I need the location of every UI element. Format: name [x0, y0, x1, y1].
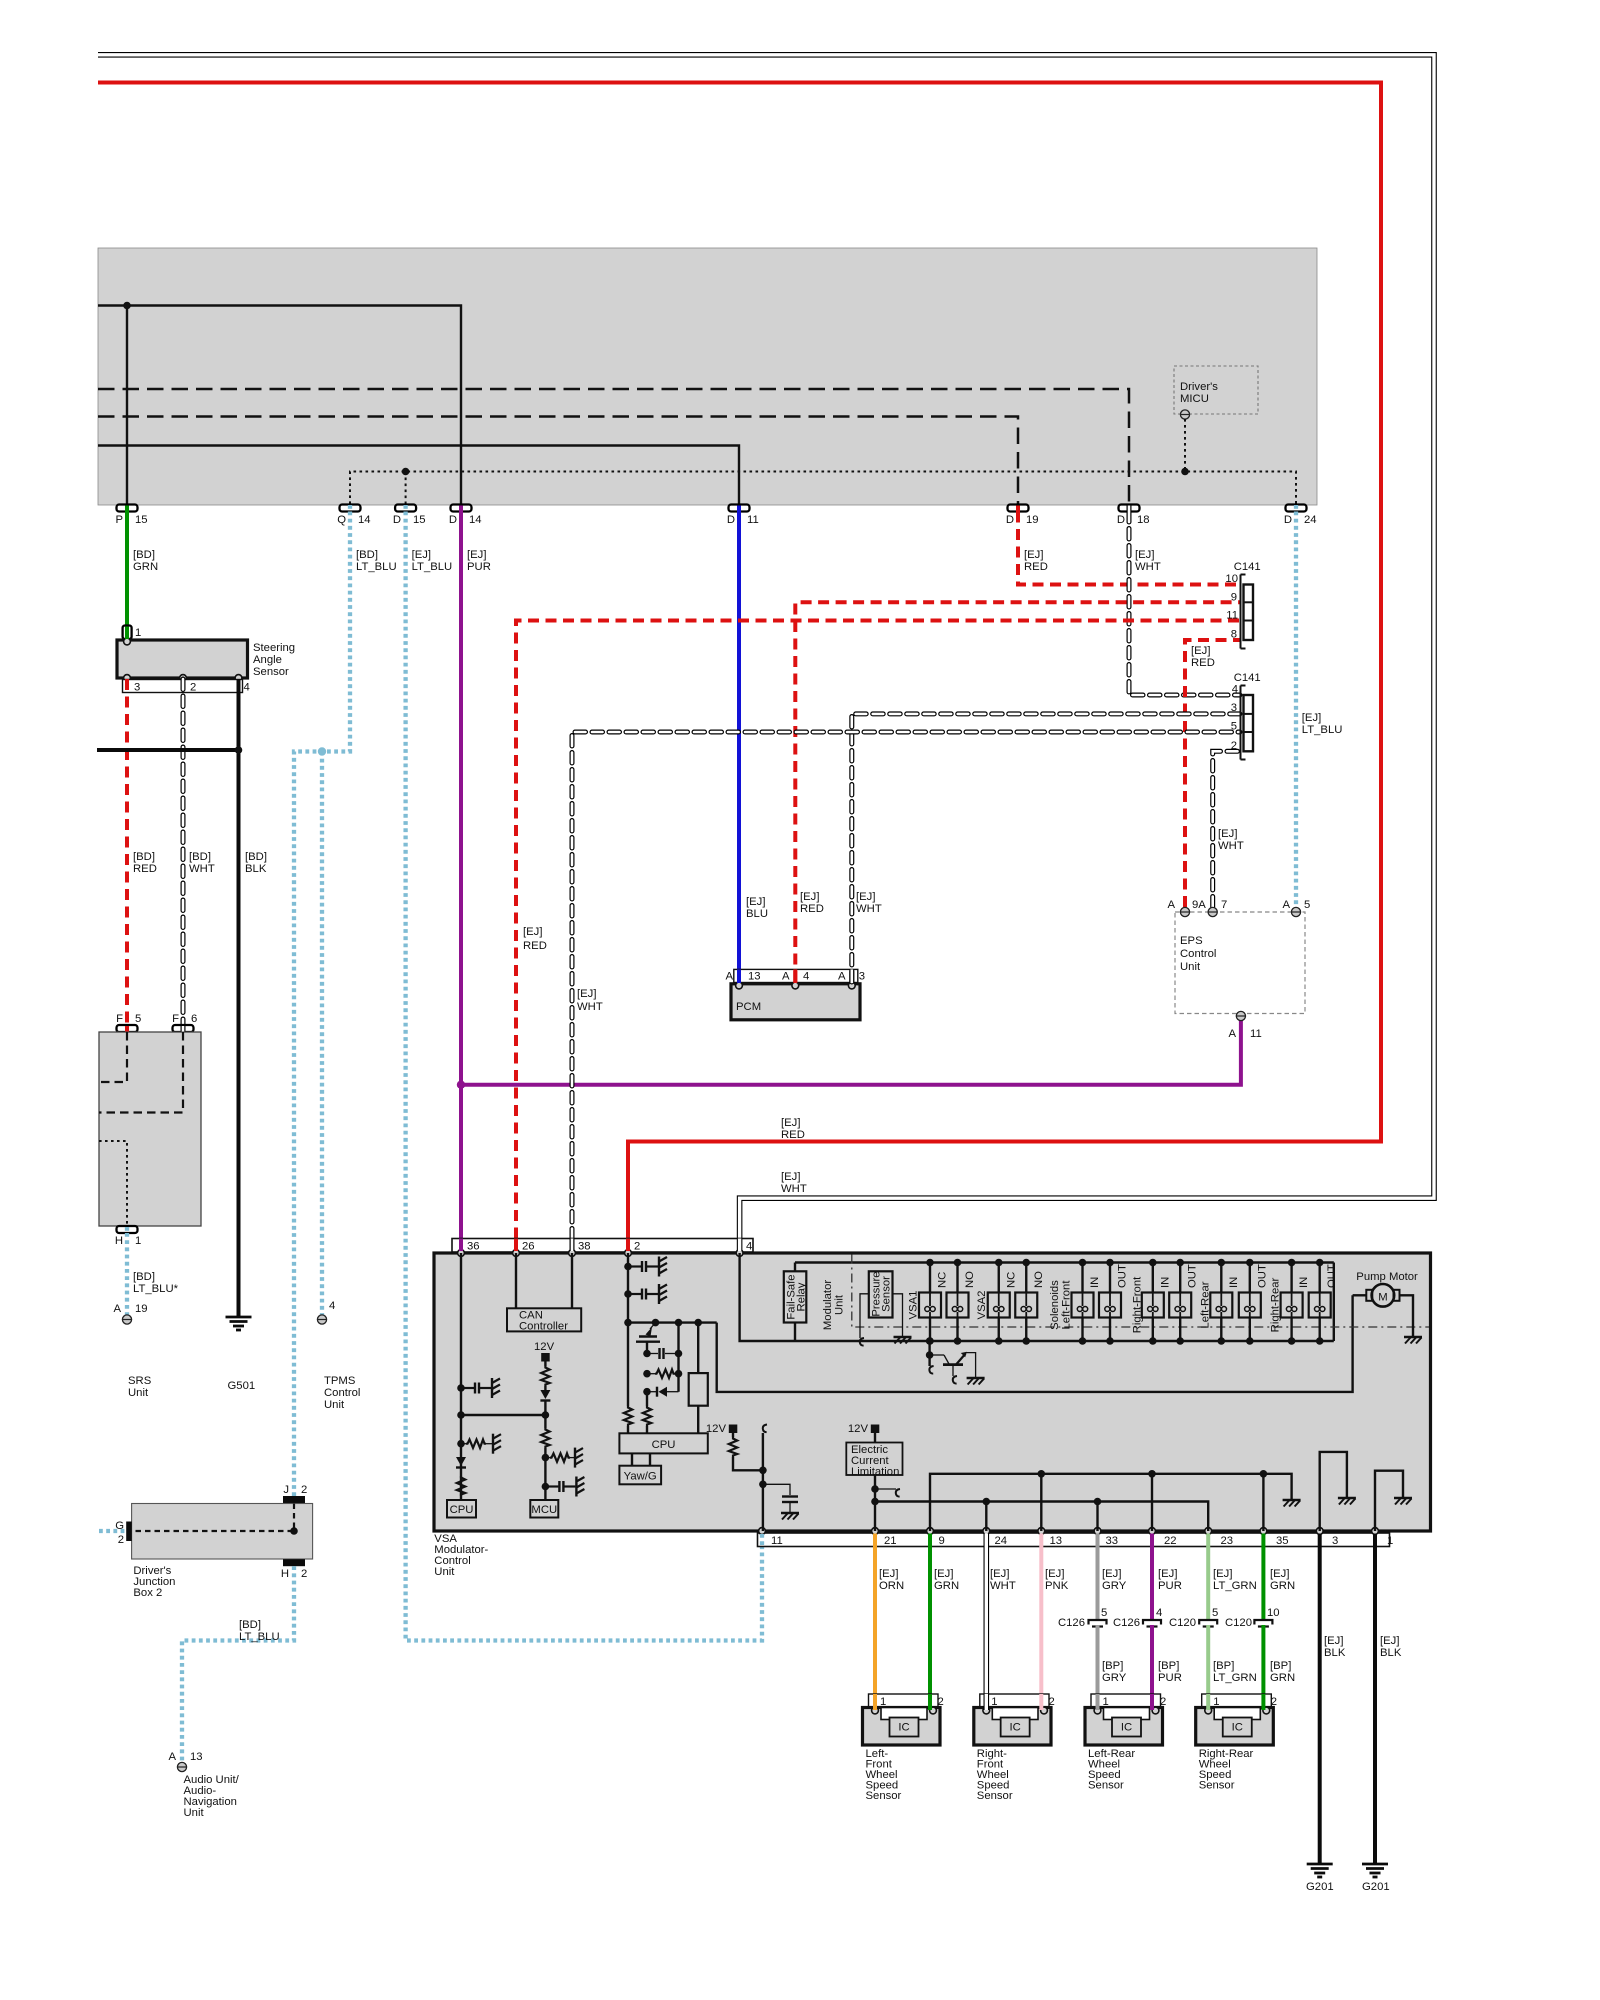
- svg-text:F: F: [116, 1013, 123, 1025]
- terminal A 5 (EPS): [1282, 899, 1310, 917]
- svg-text:Sensor: Sensor: [881, 1276, 893, 1312]
- svg-text:H: H: [281, 1568, 289, 1580]
- svg-text:PUR: PUR: [1158, 1580, 1182, 1592]
- svg-text:A: A: [1167, 899, 1175, 911]
- VSA top pin circles: [458, 1250, 465, 1257]
- VSA bottom pin strip (11 21 9 24 13 33 22 23 35 3 1): [758, 1533, 1394, 1547]
- connector C141 (pins 4 3 5 2): [1231, 672, 1261, 760]
- connector D 18: [1117, 505, 1150, 527]
- svg-text:A: A: [782, 971, 790, 983]
- VSA bottom pin circles: [759, 1528, 766, 1535]
- connector H 1: [115, 1226, 141, 1247]
- pressure sensor: [860, 1271, 912, 1345]
- wire [BD] LT_BLU (Q14 to junction box / TPMS): [294, 512, 350, 1497]
- wire ORN into LF sensor: [873, 1694, 877, 1710]
- resistor mid chain: [541, 1415, 549, 1500]
- svg-text:12V: 12V: [534, 1341, 555, 1353]
- modulator unit boundary (dash-dot): [822, 1255, 1429, 1331]
- wire [EJ] GRN (pin 9 to LF sensor 2): [928, 1547, 932, 1710]
- svg-text:10: 10: [1267, 1607, 1280, 1619]
- svg-text:15: 15: [413, 514, 426, 526]
- svg-text:G501: G501: [228, 1380, 256, 1392]
- svg-text:[EJ]: [EJ]: [412, 549, 431, 561]
- driver's junction box 2: [132, 1504, 313, 1600]
- wire WHT through strip pin4: [737, 1239, 743, 1252]
- svg-text:GRN: GRN: [1270, 1672, 1295, 1684]
- resistor into CPU (fet col): [643, 1406, 651, 1433]
- pin 38 internal line: [571, 1253, 573, 1308]
- steering angle sensor: [117, 640, 295, 678]
- svg-text:LT_BLU*: LT_BLU*: [133, 1283, 179, 1295]
- svg-text:[EJ]: [EJ]: [781, 1117, 800, 1129]
- pin 2 internal line: [627, 1253, 629, 1406]
- svg-text:NO: NO: [1033, 1271, 1045, 1288]
- svg-text:[BD]: [BD]: [133, 1271, 155, 1283]
- wire MICU dotted drop: [1184, 419, 1186, 472]
- resistor box component: [689, 1323, 708, 1434]
- svg-text:WHT: WHT: [990, 1580, 1016, 1592]
- wire [BP] GRN (C120 to RR sensor 2): [1261, 1625, 1265, 1709]
- wire black stub (page edge to BLK): [97, 748, 239, 752]
- wire WHT through PCM strip: [849, 969, 854, 983]
- svg-text:Angle: Angle: [253, 654, 282, 666]
- fail-safe relay: [784, 1263, 808, 1342]
- svg-text:15: 15: [135, 514, 148, 526]
- svg-text:38: 38: [578, 1241, 591, 1253]
- svg-text:D: D: [1284, 514, 1292, 526]
- svg-text:Control: Control: [324, 1387, 360, 1399]
- svg-text:IC: IC: [1009, 1722, 1020, 1734]
- wire BLU through PCM strip: [737, 969, 741, 983]
- wire [EJ] RED (EPS A9A to C141 pin 8): [1185, 640, 1240, 907]
- wire LT_BLU through connector H1: [125, 1227, 129, 1233]
- wire RED through connector D19: [1016, 506, 1020, 512]
- power rail of FET: [628, 1321, 717, 1323]
- svg-text:[EJ]: [EJ]: [1324, 1635, 1343, 1647]
- svg-text:10: 10: [1225, 573, 1238, 585]
- svg-text:WHT: WHT: [856, 903, 882, 915]
- resistor on pin36 line: [457, 1476, 465, 1496]
- link pin36 to 12V chain: [461, 1414, 545, 1416]
- capacitor+ground pin2 upper: [628, 1257, 667, 1277]
- solenoid NO x1026: [1015, 1259, 1045, 1345]
- ladder vertical: [677, 1323, 679, 1392]
- svg-text:[EJ]: [EJ]: [577, 988, 596, 1000]
- wire [EJ] RED (VSA pin 26 to C141 pin 11): [516, 621, 1240, 1257]
- svg-text:11: 11: [1250, 1028, 1262, 1040]
- diode on pin36 line: [456, 1457, 466, 1468]
- connector C120 pin 10: [1225, 1607, 1280, 1629]
- solenoid IN x1291: [1281, 1259, 1311, 1345]
- svg-text:Unit: Unit: [434, 1566, 455, 1578]
- svg-text:M: M: [1378, 1292, 1387, 1304]
- connector C141 (pins 10 9 11 8): [1225, 561, 1260, 649]
- svg-text:Sensor: Sensor: [1088, 1780, 1124, 1792]
- svg-text:2: 2: [190, 682, 196, 694]
- pin 1 riser + ground: [1375, 1471, 1412, 1531]
- Driver's MICU terminal: [1180, 410, 1189, 419]
- svg-text:IC: IC: [1121, 1722, 1132, 1734]
- svg-text:IN: IN: [1089, 1277, 1101, 1288]
- svg-text:TPMS: TPMS: [324, 1375, 356, 1387]
- wire BLK through strip pin1: [1373, 1534, 1377, 1548]
- svg-text:Unit: Unit: [324, 1399, 345, 1411]
- svg-text:4: 4: [244, 682, 250, 694]
- svg-text:[BD]: [BD]: [133, 549, 155, 561]
- wire bus solid lower (D11): [98, 446, 739, 505]
- svg-text:12V: 12V: [848, 1423, 869, 1435]
- svg-text:C126: C126: [1058, 1617, 1085, 1629]
- svg-text:GRN: GRN: [133, 561, 158, 573]
- wire PUR through connector D14: [459, 506, 463, 512]
- svg-text:19: 19: [135, 1303, 148, 1315]
- svg-text:[EJ]: [EJ]: [1158, 1568, 1177, 1580]
- svg-text:PCM: PCM: [736, 1001, 761, 1013]
- wire GRN through strip pin35: [1261, 1534, 1265, 1548]
- svg-text:LT_BLU: LT_BLU: [412, 561, 453, 573]
- pin 21 internal line: [874, 1475, 876, 1531]
- svg-text:Modulator: Modulator: [822, 1280, 834, 1330]
- wire [EJ] WHT (EPS 7 to C141 pin 2): [1213, 751, 1240, 907]
- svg-text:4: 4: [1232, 684, 1238, 696]
- svg-text:[EJ]: [EJ]: [523, 926, 542, 938]
- svg-text:PUR: PUR: [1158, 1672, 1182, 1684]
- FET output run to pump motor: [717, 1295, 1353, 1392]
- CPU box (left): [447, 1500, 476, 1518]
- svg-text:9: 9: [1231, 592, 1237, 604]
- svg-text:5: 5: [1231, 721, 1237, 733]
- svg-text:2: 2: [634, 1241, 640, 1253]
- svg-text:Relay: Relay: [796, 1282, 808, 1311]
- SRS internal dotted H1: [99, 1141, 127, 1226]
- svg-text:[BP]: [BP]: [1158, 1660, 1179, 1672]
- pin 3 riser + ground: [1320, 1452, 1356, 1531]
- connector C126 pin 4: [1113, 1607, 1162, 1629]
- svg-text:4: 4: [746, 1241, 752, 1253]
- top junction module (gray bus box): [98, 248, 1317, 505]
- svg-text:C120: C120: [1225, 1617, 1252, 1629]
- svg-text:Control: Control: [1180, 948, 1216, 960]
- wire [BD] LT_BLU* (H1 to SRS A19): [125, 1233, 129, 1315]
- capacitor+ground right of chain: [545, 1477, 584, 1497]
- wire bus dashed upper (D18): [98, 389, 1129, 504]
- svg-text:24: 24: [995, 1535, 1008, 1547]
- svg-text:7: 7: [1221, 899, 1227, 911]
- wire [BD] RED (pin 3 to F5): [125, 679, 129, 1028]
- svg-text:13: 13: [748, 971, 761, 983]
- solenoid IN x1221: [1210, 1259, 1240, 1345]
- wire ORN through strip pin21: [873, 1534, 877, 1548]
- svg-text:RED: RED: [781, 1129, 805, 1141]
- svg-text:NO: NO: [964, 1271, 976, 1288]
- svg-text:BLK: BLK: [1324, 1647, 1346, 1659]
- resistor (watchdog): [729, 1437, 763, 1470]
- svg-text:Steering: Steering: [253, 642, 295, 654]
- svg-text:8: 8: [1231, 629, 1237, 641]
- svg-text:LT_BLU: LT_BLU: [239, 1631, 280, 1643]
- wire GRN through connector P15: [125, 506, 129, 512]
- CPU box (power section): [619, 1433, 707, 1453]
- svg-text:[EJ]: [EJ]: [781, 1171, 800, 1183]
- wire WHT into RF sensor: [983, 1694, 989, 1710]
- svg-text:22: 22: [1164, 1535, 1177, 1547]
- svg-text:RED: RED: [523, 940, 547, 952]
- terminal A 11 (EPS): [1228, 1011, 1261, 1040]
- svg-text:RED: RED: [1191, 657, 1215, 669]
- svg-text:LT_GRN: LT_GRN: [1213, 1580, 1257, 1592]
- wire lt_blu stub (page edge to G2): [99, 1529, 126, 1533]
- connector D 15: [393, 505, 426, 527]
- svg-text:3: 3: [1332, 1535, 1338, 1547]
- svg-text:4: 4: [803, 971, 809, 983]
- wire [EJ] BLK (pin 1 to G201): [1373, 1547, 1377, 1864]
- svg-text:[EJ]: [EJ]: [1024, 549, 1043, 561]
- wire [EJ] BLK (pin 3 to G201): [1318, 1547, 1322, 1864]
- svg-text:12V: 12V: [706, 1423, 727, 1435]
- wire [EJ] ORN (pin 21 to LF sensor 1): [873, 1547, 877, 1710]
- svg-text:2: 2: [301, 1484, 307, 1496]
- svg-text:11: 11: [1226, 610, 1238, 622]
- wire [EJ] PNK (pin 13 to RF sensor 2): [1039, 1547, 1043, 1710]
- svg-text:11: 11: [771, 1535, 783, 1547]
- 12V source (MCU chain): [534, 1341, 555, 1366]
- wire [EJ] LT_BLU (D15 to VSA pin 11): [406, 512, 762, 1641]
- wire LT_BLU through connector Q14: [348, 505, 352, 512]
- svg-text:5: 5: [1304, 899, 1310, 911]
- svg-text:3: 3: [134, 682, 140, 694]
- SRS unit box: [99, 1032, 201, 1226]
- junction box 2 internal dashed: [132, 1504, 294, 1532]
- solenoid bottom rail: [795, 1340, 1334, 1342]
- ground G501: [226, 1317, 256, 1392]
- wire bus dashed lower (D19): [98, 417, 1018, 505]
- connector D 19: [1006, 505, 1039, 527]
- wire [BD] BLK (pin 4 to G501): [237, 679, 241, 1317]
- wire GRY through strip pin33: [1096, 1534, 1100, 1548]
- svg-text:IC: IC: [1232, 1722, 1243, 1734]
- svg-text:Solenoids: Solenoids: [1049, 1280, 1061, 1330]
- svg-text:[BD]: [BD]: [245, 851, 267, 863]
- svg-text:1: 1: [135, 1235, 141, 1247]
- connector P 15: [115, 505, 147, 527]
- svg-text:Unit: Unit: [1180, 961, 1201, 973]
- svg-text:Yaw/G: Yaw/G: [624, 1471, 657, 1483]
- wire GRY into LR sensor: [1096, 1694, 1100, 1710]
- svg-text:6: 6: [191, 1013, 197, 1025]
- resistor+ground right of chain: [545, 1448, 583, 1468]
- svg-text:18: 18: [1137, 514, 1150, 526]
- svg-text:13: 13: [190, 1751, 203, 1763]
- wire PUR into LR sensor: [1150, 1694, 1154, 1710]
- wire overlay pin1 capsule: [125, 627, 129, 640]
- wire [BD] LT_BLU (H2 to audio unit A13): [182, 1566, 294, 1763]
- wire [EJ] RED (PCM A4 to C141 pin 9): [795, 602, 1240, 982]
- svg-text:[BD]: [BD]: [239, 1619, 261, 1631]
- VSA top pin strip (36 26 38 2 4): [452, 1239, 753, 1253]
- wire LT_BLU through connector D24: [1294, 505, 1298, 512]
- MOSFET: [636, 1323, 660, 1354]
- svg-text:1: 1: [135, 627, 141, 639]
- terminal 7 (EPS): [1208, 899, 1227, 917]
- steering angle sensor pin strip (3 2 4): [123, 680, 250, 694]
- svg-text:Sensor: Sensor: [977, 1790, 1013, 1802]
- connector J 2: [283, 1484, 307, 1503]
- diode below resistor: [540, 1386, 550, 1415]
- svg-text:4: 4: [329, 1300, 335, 1312]
- svg-text:MICU: MICU: [1180, 393, 1209, 405]
- resistor below 12V: [541, 1366, 549, 1386]
- svg-text:[EJ]: [EJ]: [1213, 1568, 1232, 1580]
- svg-text:A: A: [1228, 1028, 1236, 1040]
- svg-text:14: 14: [469, 514, 482, 526]
- svg-text:[BD]: [BD]: [189, 851, 211, 863]
- left-rear wheel speed sensor: [1085, 1694, 1166, 1792]
- svg-text:[BP]: [BP]: [1270, 1660, 1291, 1672]
- PCM pin circles: [736, 982, 743, 989]
- svg-text:[EJ]: [EJ]: [1191, 645, 1210, 657]
- sensor feed rail B: [875, 1502, 1208, 1532]
- svg-text:GRN: GRN: [1270, 1580, 1295, 1592]
- svg-text:C141: C141: [1234, 561, 1261, 573]
- svg-text:1: 1: [1387, 1535, 1393, 1547]
- svg-text:Box 2: Box 2: [133, 1587, 162, 1599]
- connector Q 14: [337, 505, 370, 527]
- wire [EJ] WHT (PCM A3 to C141 pin 3): [852, 714, 1240, 982]
- svg-text:WHT: WHT: [189, 863, 215, 875]
- ground G201 (right): [1362, 1864, 1390, 1893]
- svg-text:33: 33: [1106, 1535, 1119, 1547]
- wire PNK into RF sensor: [1039, 1694, 1043, 1710]
- svg-text:[EJ]: [EJ]: [1045, 1568, 1064, 1580]
- capacitor+ground (pin 11 branch): [763, 1484, 799, 1519]
- svg-text:9: 9: [939, 1535, 945, 1547]
- svg-text:VSA2: VSA2: [976, 1291, 988, 1320]
- wire LT_GRN into RR sensor: [1206, 1694, 1210, 1710]
- hook (ECL branch): [875, 1489, 900, 1497]
- svg-text:[EJ]: [EJ]: [467, 549, 486, 561]
- connector D 14: [449, 505, 482, 527]
- svg-text:[EJ]: [EJ]: [746, 896, 765, 908]
- svg-text:5: 5: [1212, 1607, 1218, 1619]
- svg-text:11: 11: [747, 514, 759, 526]
- svg-text:IN: IN: [1159, 1277, 1171, 1288]
- solenoid OUT x1110: [1099, 1259, 1129, 1345]
- wire [EJ] WHT (D18 to C141 pin 4): [1129, 512, 1240, 696]
- svg-text:Controller: Controller: [519, 1321, 568, 1333]
- PCM box: [731, 984, 860, 1020]
- wire [EJ] WHT (VSA pin 38 to C141 pin 5): [572, 732, 1240, 1256]
- wire PUR through strip pin22: [1150, 1534, 1154, 1548]
- resistor+ground right of pin36: [461, 1434, 501, 1454]
- svg-text:Left-Rear: Left-Rear: [1199, 1281, 1211, 1328]
- wire [EJ] PUR (pin 22 to C126): [1150, 1547, 1154, 1620]
- svg-text:Right-Front: Right-Front: [1132, 1276, 1144, 1333]
- svg-text:C141: C141: [1234, 672, 1261, 684]
- svg-text:5: 5: [1101, 1607, 1107, 1619]
- wire WHT through strip pin38: [570, 1239, 575, 1252]
- left-front wheel speed sensor: [863, 1694, 944, 1802]
- wire WHT through connector F6: [181, 1026, 186, 1032]
- svg-text:Right-Rear: Right-Rear: [1270, 1277, 1282, 1332]
- svg-text:[BD]: [BD]: [356, 549, 378, 561]
- svg-text:9A: 9A: [1192, 899, 1206, 911]
- svg-text:Sensor: Sensor: [1199, 1780, 1235, 1792]
- wire [BP] PUR (C126 to LR sensor 2): [1150, 1625, 1154, 1709]
- svg-text:[EJ]: [EJ]: [1270, 1568, 1289, 1580]
- svg-text:BLK: BLK: [245, 863, 267, 875]
- terminal A 9A (EPS): [1167, 899, 1206, 917]
- capacitor+ground pin2 lower: [628, 1284, 667, 1304]
- CAN controller box: [507, 1308, 581, 1332]
- wire GRN into RR sensor: [1261, 1694, 1265, 1710]
- svg-text:OUT: OUT: [1326, 1264, 1338, 1288]
- svg-text:Driver's: Driver's: [1180, 381, 1218, 393]
- wire LT_GRN through strip pin23: [1206, 1534, 1210, 1548]
- wire [EJ] PUR branch (to EPS A11): [461, 1020, 1241, 1085]
- svg-text:F: F: [172, 1013, 179, 1025]
- svg-text:23: 23: [1221, 1535, 1234, 1547]
- svg-text:RED: RED: [1024, 561, 1048, 573]
- 12V source (electric current limitation): [848, 1423, 879, 1443]
- svg-text:BLU: BLU: [746, 908, 768, 920]
- svg-text:WHT: WHT: [781, 1183, 807, 1195]
- svg-text:13: 13: [1050, 1535, 1063, 1547]
- hook (watchdog top): [763, 1425, 767, 1532]
- svg-text:PUR: PUR: [467, 561, 491, 573]
- svg-text:Unit: Unit: [834, 1294, 846, 1315]
- svg-text:GRY: GRY: [1102, 1672, 1127, 1684]
- gate ladder: resistor row: [643, 1370, 682, 1378]
- svg-text:[BP]: [BP]: [1102, 1660, 1123, 1672]
- terminal A 19 (SRS unit): [113, 1303, 151, 1399]
- electric current limitation box: [846, 1443, 902, 1479]
- svg-text:[EJ]: [EJ]: [1218, 828, 1237, 840]
- svg-text:P: P: [115, 514, 123, 526]
- svg-text:H: H: [115, 1235, 123, 1247]
- svg-text:19: 19: [1026, 514, 1039, 526]
- terminal 4 (TPMS control unit): [317, 1300, 360, 1411]
- svg-text:CPU: CPU: [450, 1504, 474, 1516]
- wire LT_BLU through connector D15: [403, 505, 407, 512]
- wire [EJ] GRY (pin 33 to C126): [1096, 1547, 1100, 1620]
- wire BLU through connector D11: [737, 506, 741, 512]
- transistor (solenoid driver): [926, 1337, 985, 1384]
- svg-text:CPU: CPU: [652, 1439, 676, 1451]
- connector D 24: [1284, 505, 1317, 527]
- svg-text:NC: NC: [1005, 1272, 1017, 1288]
- solenoid NO x957: [947, 1259, 977, 1345]
- svg-text:[EJ]: [EJ]: [1380, 1635, 1399, 1647]
- resistor into CPU (pin2 col): [624, 1406, 632, 1433]
- svg-text:D: D: [1117, 514, 1125, 526]
- svg-text:Pump Motor: Pump Motor: [1356, 1271, 1418, 1283]
- svg-text:WHT: WHT: [577, 1001, 603, 1013]
- svg-text:Sensor: Sensor: [253, 666, 289, 678]
- svg-text:G201: G201: [1362, 1881, 1390, 1893]
- solenoid NC x998: [988, 1259, 1018, 1345]
- steering angle sensor pin 1 connector: [123, 626, 142, 640]
- right-front wheel speed sensor: [974, 1694, 1055, 1802]
- svg-text:LT_BLU: LT_BLU: [1302, 724, 1343, 736]
- ground G201 (left): [1306, 1864, 1334, 1893]
- svg-text:26: 26: [522, 1241, 535, 1253]
- wire [BD] LT_BLU branch (to TPMS): [320, 752, 324, 1316]
- connector G 2: [115, 1520, 132, 1546]
- svg-text:OUT: OUT: [1117, 1264, 1129, 1288]
- svg-text:[EJ]: [EJ]: [800, 891, 819, 903]
- connector F 5: [116, 1013, 141, 1032]
- wire RED through strip pin2: [626, 1239, 630, 1252]
